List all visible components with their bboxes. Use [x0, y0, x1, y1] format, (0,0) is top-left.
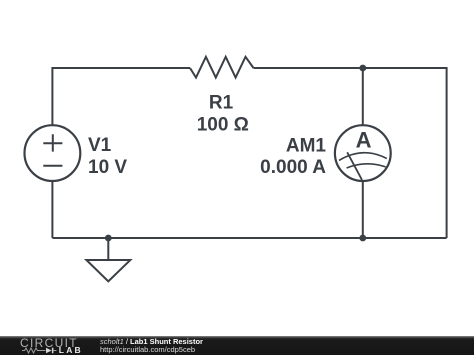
- svg-text:V1: V1: [88, 135, 112, 156]
- junction dot node bottom-right: [359, 235, 366, 242]
- wire ammeter bottom stub: [362, 181, 364, 238]
- svg-text:R1: R1: [209, 93, 234, 114]
- ammeter AM1 circle: [335, 125, 391, 181]
- ammeter gauge top arc: [339, 153, 387, 161]
- logo resistor+diode glyph: [22, 347, 60, 355]
- ammeter needle: [347, 152, 362, 180]
- wire ammeter top stub: [362, 68, 364, 125]
- wire bottom: [52, 237, 446, 239]
- svg-text:0.000 A: 0.000 A: [260, 157, 326, 178]
- junction dot node top: [359, 65, 366, 72]
- footer url: [100, 346, 195, 354]
- svg-text:AM1: AM1: [286, 136, 327, 157]
- logo word LAB: [59, 347, 83, 354]
- ammeter gauge bottom arc: [347, 164, 386, 168]
- ground symbol: [86, 238, 130, 281]
- voltage source V1 circle: [25, 125, 81, 181]
- footer title: [100, 338, 203, 346]
- svg-text:100 Ω: 100 Ω: [197, 115, 249, 136]
- svg-text:A: A: [356, 128, 372, 153]
- svg-text:10 V: 10 V: [88, 157, 127, 178]
- footer bar: [0, 336, 474, 355]
- wire top-left segment: [52, 68, 190, 125]
- junction dot node ground: [105, 235, 112, 242]
- V1 plus sign: [43, 134, 62, 151]
- V1 minus sign: [43, 165, 62, 167]
- wire left-bottom (V1 to bottom rail): [51, 181, 53, 238]
- wire top-right segment: [254, 68, 447, 238]
- resistor R1: [190, 57, 254, 78]
- logo word CIRCUIT: [20, 338, 78, 348]
